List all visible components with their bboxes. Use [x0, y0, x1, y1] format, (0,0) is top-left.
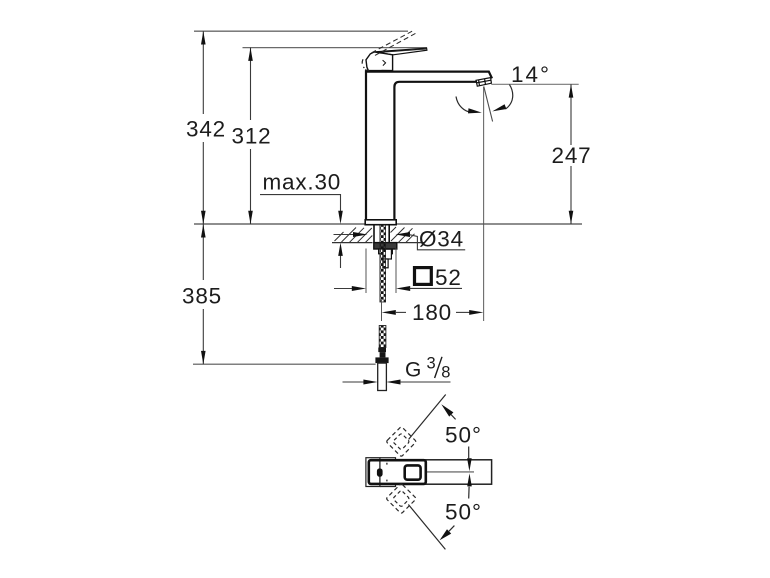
- dimension 180: [381, 300, 383, 321]
- hose end line (385 bottom): [193, 363, 376, 365]
- max.30 lower arrow (deck bottom): [340, 255, 342, 268]
- extension line 312 (tip of lever): [243, 47, 428, 49]
- solid lever knuckle: [366, 52, 393, 71]
- svg-text:3: 3: [427, 355, 436, 373]
- svg-text:14°: 14°: [511, 62, 551, 87]
- svg-text:max.30: max.30: [263, 170, 342, 195]
- dimension 342: [202, 31, 204, 224]
- mounting nut: [374, 243, 397, 249]
- hose braid: [379, 326, 386, 348]
- 50deg lower diagonal line: [408, 505, 445, 550]
- hose end tube: [378, 363, 387, 390]
- dashed raised lever edge 2: [375, 33, 417, 56]
- dashed diamond lower inner: [393, 490, 410, 507]
- counter top line: [194, 223, 582, 225]
- dimension 312: [250, 48, 252, 224]
- angle arc left with arrow: [456, 97, 472, 113]
- svg-text:50°: 50°: [445, 422, 482, 447]
- svg-text:G: G: [405, 359, 421, 382]
- svg-text:385: 385: [182, 284, 222, 309]
- dashed diamond lower outer: [386, 483, 416, 513]
- faucet body inner edge and spout underside: [394, 82, 477, 220]
- hose crimp: [378, 348, 386, 353]
- nut lower step: [379, 249, 393, 254]
- dashed diamond upper inner: [393, 433, 410, 450]
- svg-text:312: 312: [232, 124, 272, 149]
- 50deg upper vertical arrow: [468, 447, 470, 459]
- top view lever slot: [377, 468, 383, 476]
- svg-text:8: 8: [441, 364, 450, 382]
- faucet body outline: [366, 72, 492, 220]
- fixing screw steps: [383, 249, 392, 259]
- aerator: [476, 78, 491, 87]
- hose hex nut G3/8: [375, 357, 388, 363]
- mounting base plate: [365, 220, 396, 225]
- solid lever blade: [374, 48, 427, 55]
- dashed raised knuckle arc: [362, 59, 364, 68]
- dimension square 52: [334, 288, 353, 290]
- extension line top (tip of raised lever): [194, 30, 408, 32]
- dimension G 3/8: [343, 381, 365, 383]
- deck hatching left: [335, 228, 373, 243]
- dashed raised lever edge 1: [372, 30, 415, 53]
- deck bottom lines: [332, 242, 425, 244]
- top view outer body rectangle: [367, 460, 491, 484]
- threaded shank rod: [380, 225, 386, 302]
- svg-text:Ø34: Ø34: [419, 226, 464, 251]
- label 14 deg: [491, 83, 509, 85]
- angle arc right with arrow: [506, 84, 513, 109]
- top view handle outer thin outline: [380, 458, 396, 487]
- spout stream vertical line: [483, 87, 485, 322]
- svg-text:342: 342: [186, 117, 226, 142]
- dimension square 52 extension lines: [366, 249, 396, 294]
- svg-text:50°: 50°: [445, 499, 482, 524]
- dashed diamond upper outer: [386, 426, 416, 456]
- top view centerline: [426, 471, 474, 473]
- dimension diameter 34: [334, 234, 354, 236]
- spout stream tilted line 14deg: [484, 87, 493, 122]
- deck hatching right: [391, 227, 415, 242]
- 50deg upper diagonal line: [409, 395, 446, 440]
- shank walls: [374, 225, 389, 243]
- svg-text:247: 247: [552, 143, 592, 168]
- svg-text:180: 180: [412, 300, 452, 325]
- top view handle thick outline: [369, 460, 426, 484]
- top view tiny marks: [386, 463, 388, 482]
- svg-text:52: 52: [435, 265, 462, 290]
- dimension 385: [202, 224, 204, 364]
- top view cartridge square: [405, 465, 421, 479]
- 50deg lower vertical arrow: [468, 487, 470, 499]
- dimension 247: [509, 83, 578, 85]
- 50deg lower diagonal arrowhead: [440, 529, 452, 540]
- 50deg upper diagonal arrowhead: [441, 404, 453, 416]
